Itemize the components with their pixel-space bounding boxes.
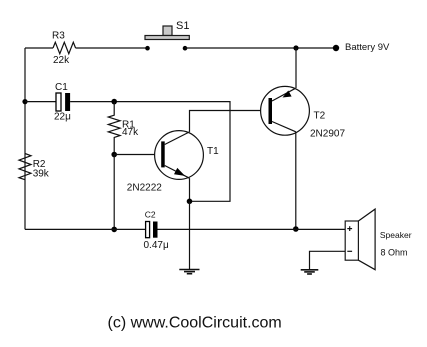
resistor R2: [19, 154, 31, 180]
speaker: [345, 209, 375, 270]
transistor T2: [261, 86, 310, 135]
wire R3 to switch: [76, 47, 148, 49]
ground below T1: [179, 270, 199, 274]
node switch right terminal: [183, 46, 188, 51]
label R2: [33, 159, 46, 170]
resistor R3: [53, 42, 76, 53]
node switch left terminal: [145, 46, 150, 51]
label R3: [52, 31, 65, 42]
wire T1 base: [114, 154, 161, 156]
svg-text:8 Ohm: 8 Ohm: [381, 248, 408, 258]
wire C1 to corner (node A): [70, 102, 230, 202]
svg-text:39k: 39k: [33, 169, 50, 180]
svg-text:S1: S1: [176, 20, 189, 32]
wire battery junction to T2 emitter: [295, 48, 297, 88]
wire T1 emitter down: [189, 178, 191, 201]
switch S1: [145, 26, 189, 40]
wire top rail left segment: [25, 47, 53, 49]
wire T1 collector up: [190, 111, 269, 132]
label T2: [314, 111, 326, 122]
value 8 Ohm: [381, 248, 408, 258]
node T1 emitter junction: [187, 199, 193, 205]
label C2: [145, 210, 156, 220]
resistor R1: [108, 102, 120, 155]
wire emitter junction to ground: [189, 201, 191, 269]
svg-text:2N2907: 2N2907: [310, 129, 345, 140]
svg-text:C1: C1: [55, 82, 68, 93]
svg-text:(c) www.CoolCircuit.com: (c) www.CoolCircuit.com: [108, 315, 282, 332]
node bottom rail junction: [111, 227, 117, 233]
svg-text:Battery 9V: Battery 9V: [345, 42, 390, 53]
node T1 base junction: [111, 152, 117, 158]
wire bottom rail left: [25, 228, 146, 230]
value 0.47u: [144, 240, 169, 251]
value 39k: [33, 169, 50, 180]
transistor T1: [155, 131, 204, 180]
ground below speaker: [301, 270, 319, 274]
node C1 left junction: [22, 99, 27, 104]
value 2N2907: [310, 129, 345, 140]
svg-text:47k: 47k: [122, 127, 139, 138]
svg-text:22μ: 22μ: [54, 112, 71, 123]
label T1: [207, 146, 219, 157]
node battery junction: [293, 45, 298, 50]
label C1: [55, 82, 68, 93]
wire switch to battery: [185, 47, 336, 49]
value 2N2222: [127, 183, 162, 194]
label Speaker: [380, 230, 412, 240]
wire left rail: [24, 48, 26, 229]
wire base node to bottom rail: [113, 155, 115, 230]
node R1 top junction: [111, 99, 117, 105]
value 22u: [54, 112, 71, 123]
node battery terminal: [333, 45, 339, 51]
svg-text:C2: C2: [145, 210, 156, 220]
capacitor C1: [25, 93, 70, 111]
value 47k: [122, 127, 139, 138]
svg-text:22k: 22k: [53, 55, 70, 66]
svg-text:T2: T2: [314, 111, 326, 122]
label R1: [122, 120, 135, 131]
capacitor C2: [146, 222, 158, 238]
label Battery 9V: [345, 42, 390, 53]
wire bottom rail right to speaker: [158, 228, 346, 230]
svg-text:R3: R3: [52, 31, 65, 42]
svg-text:2N2222: 2N2222: [127, 183, 162, 194]
wire speaker minus to ground: [310, 251, 346, 269]
wire T2 collector down: [295, 132, 297, 229]
svg-text:T1: T1: [207, 146, 219, 157]
label S1: [176, 20, 189, 32]
svg-text:0.47μ: 0.47μ: [144, 240, 169, 251]
svg-text:Speaker: Speaker: [380, 230, 412, 240]
label copyright www.CoolCircuit.com: [108, 315, 282, 332]
node speaker junction: [293, 226, 299, 232]
value 22k: [53, 55, 70, 66]
